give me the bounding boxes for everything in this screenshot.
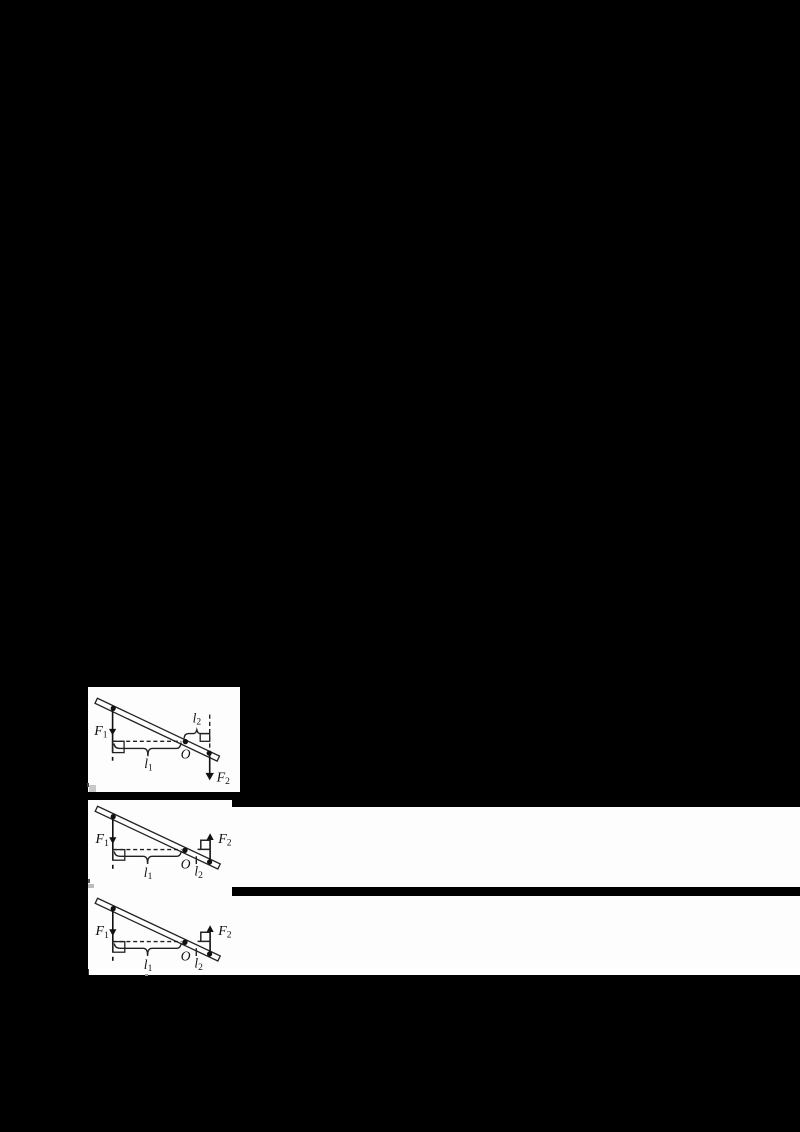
svg-text:O: O	[181, 747, 191, 762]
svg-text:l2: l2	[194, 864, 203, 881]
svg-text:O: O	[181, 856, 191, 871]
svg-text:F2: F2	[216, 770, 231, 787]
svg-text:F1: F1	[93, 724, 108, 741]
svg-text:l1: l1	[144, 756, 153, 773]
svg-text:F2: F2	[217, 832, 232, 849]
svg-text:l1: l1	[144, 865, 153, 882]
svg-text:F1: F1	[95, 832, 110, 849]
svg-text:l2: l2	[193, 710, 202, 727]
